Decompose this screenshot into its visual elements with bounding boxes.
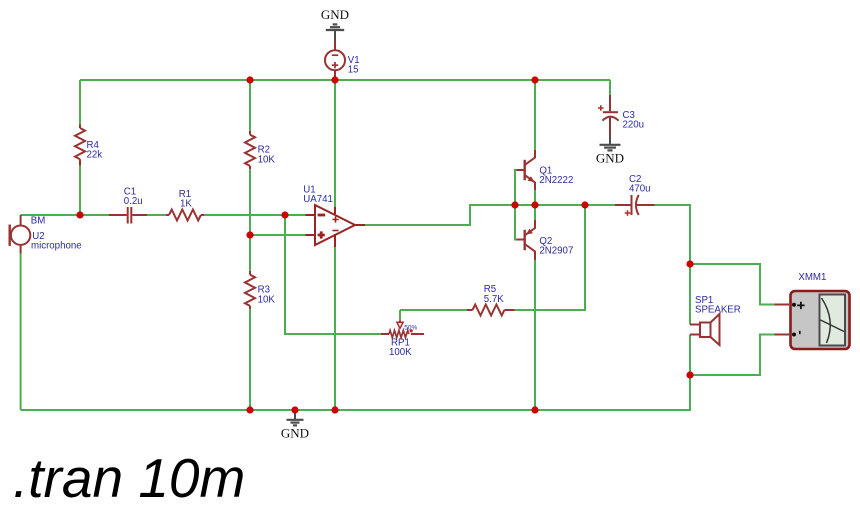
wire op-amp output to transistor bases bbox=[365, 205, 615, 225]
svg-text:XMM1: XMM1 bbox=[798, 272, 826, 283]
capacitor C2 bbox=[615, 195, 655, 215]
node rail-R2 bbox=[246, 76, 253, 83]
wire top rail bbox=[80, 79, 610, 81]
wire speaker column segments bbox=[689, 264, 691, 375]
RP1 wiper arrow bbox=[399, 320, 401, 322]
node bases bbox=[511, 201, 518, 208]
resistor R1 bbox=[166, 210, 205, 221]
svg-text:UA741: UA741 bbox=[303, 194, 333, 205]
svg-text:microphone: microphone bbox=[31, 241, 82, 252]
wire rail to C3 bbox=[609, 80, 611, 95]
svg-text:220u: 220u bbox=[623, 120, 645, 131]
node rail-V1 bbox=[331, 76, 338, 83]
svg-text:GND: GND bbox=[281, 426, 309, 441]
svg-text:BM: BM bbox=[31, 216, 46, 227]
potentiometer RP1 bbox=[381, 330, 424, 337]
svg-text:10K: 10K bbox=[258, 294, 276, 305]
resistor R5 bbox=[467, 305, 515, 316]
capacitor C1 bbox=[109, 207, 147, 224]
svg-text:10K: 10K bbox=[258, 154, 276, 165]
node speaker top bbox=[686, 260, 693, 267]
svg-text:2N2222: 2N2222 bbox=[539, 175, 573, 186]
resistor R2 bbox=[245, 131, 255, 169]
op-amp U1 bbox=[306, 205, 366, 247]
wire op-amp supply column x=335 bbox=[334, 80, 336, 410]
node rail-R3 bbox=[246, 406, 253, 413]
wire base column x=515 bbox=[515, 170, 517, 240]
speaker SP1 bbox=[690, 314, 720, 345]
node rail-opamp supply bbox=[331, 406, 338, 413]
wire Q1 emitter to node bbox=[534, 190, 536, 205]
resistor R3 bbox=[245, 271, 255, 309]
wire plus-input y=235 bbox=[250, 234, 306, 236]
svg-text:15: 15 bbox=[348, 65, 359, 76]
multimeter XMM1 bbox=[775, 291, 850, 349]
transistor Q2 bbox=[517, 220, 536, 260]
svg-text:0.2u: 0.2u bbox=[124, 196, 143, 207]
capacitor C3 bbox=[603, 95, 619, 137]
node emitters bbox=[531, 201, 538, 208]
node rail-Q2 collector bbox=[531, 406, 538, 413]
svg-text:22k: 22k bbox=[87, 150, 103, 161]
node rail-GND bbox=[291, 406, 298, 413]
wire left column lower (R4 to node) bbox=[79, 166, 81, 216]
wire left column upper (rail to R4) bbox=[79, 80, 81, 125]
svg-text:2N2907: 2N2907 bbox=[539, 246, 573, 257]
voltage source V1 bbox=[325, 41, 345, 80]
svg-text:50%: 50% bbox=[404, 325, 417, 332]
svg-text:SPEAKER: SPEAKER bbox=[695, 305, 741, 316]
node output-R5 bbox=[581, 201, 588, 208]
wire main input net y=215 bbox=[21, 214, 306, 216]
svg-text:GND: GND bbox=[596, 151, 624, 166]
microphone U2 bbox=[10, 215, 31, 254]
node divider midpoint bbox=[246, 231, 253, 238]
node speaker bottom bbox=[686, 371, 693, 378]
wire Q1 collector to rail bbox=[534, 80, 536, 150]
node junction dots bbox=[76, 76, 693, 413]
wire Q2 emitter from node bbox=[534, 205, 536, 220]
wire C2 to speaker node bbox=[655, 205, 691, 264]
wire ground rail bottom bbox=[21, 375, 690, 410]
svg-text:GND: GND bbox=[321, 7, 349, 22]
wire microphone bottom to ground rail bbox=[20, 254, 22, 411]
node mic-R4 bbox=[76, 211, 83, 218]
node rail-Q1 collector bbox=[531, 76, 538, 83]
wire R2 column bbox=[249, 80, 251, 410]
wire meter plus lead bbox=[690, 264, 775, 305]
resistor R4 bbox=[75, 125, 85, 166]
wire RP1 wiper to R5 bbox=[400, 310, 467, 320]
svg-text:.tran 10m: .tran 10m bbox=[13, 447, 245, 509]
svg-text:5.7K: 5.7K bbox=[484, 294, 504, 305]
svg-text:1K: 1K bbox=[180, 199, 192, 210]
wire meter minus lead bbox=[690, 335, 775, 376]
svg-text:470u: 470u bbox=[629, 184, 651, 195]
ground GND top (above V1) bbox=[326, 24, 344, 40]
wire feedback column x=285 to RP1 bbox=[285, 215, 381, 334]
node inverting input feedback bbox=[281, 211, 288, 218]
ground GND at C3 bbox=[600, 137, 621, 151]
wire Q2 collector to ground rail bbox=[534, 260, 536, 410]
ground GND bottom rail bbox=[287, 410, 304, 425]
wire output node down to R5 bbox=[515, 205, 585, 310]
transistor Q1 bbox=[517, 150, 536, 190]
svg-text:100K: 100K bbox=[389, 347, 412, 358]
